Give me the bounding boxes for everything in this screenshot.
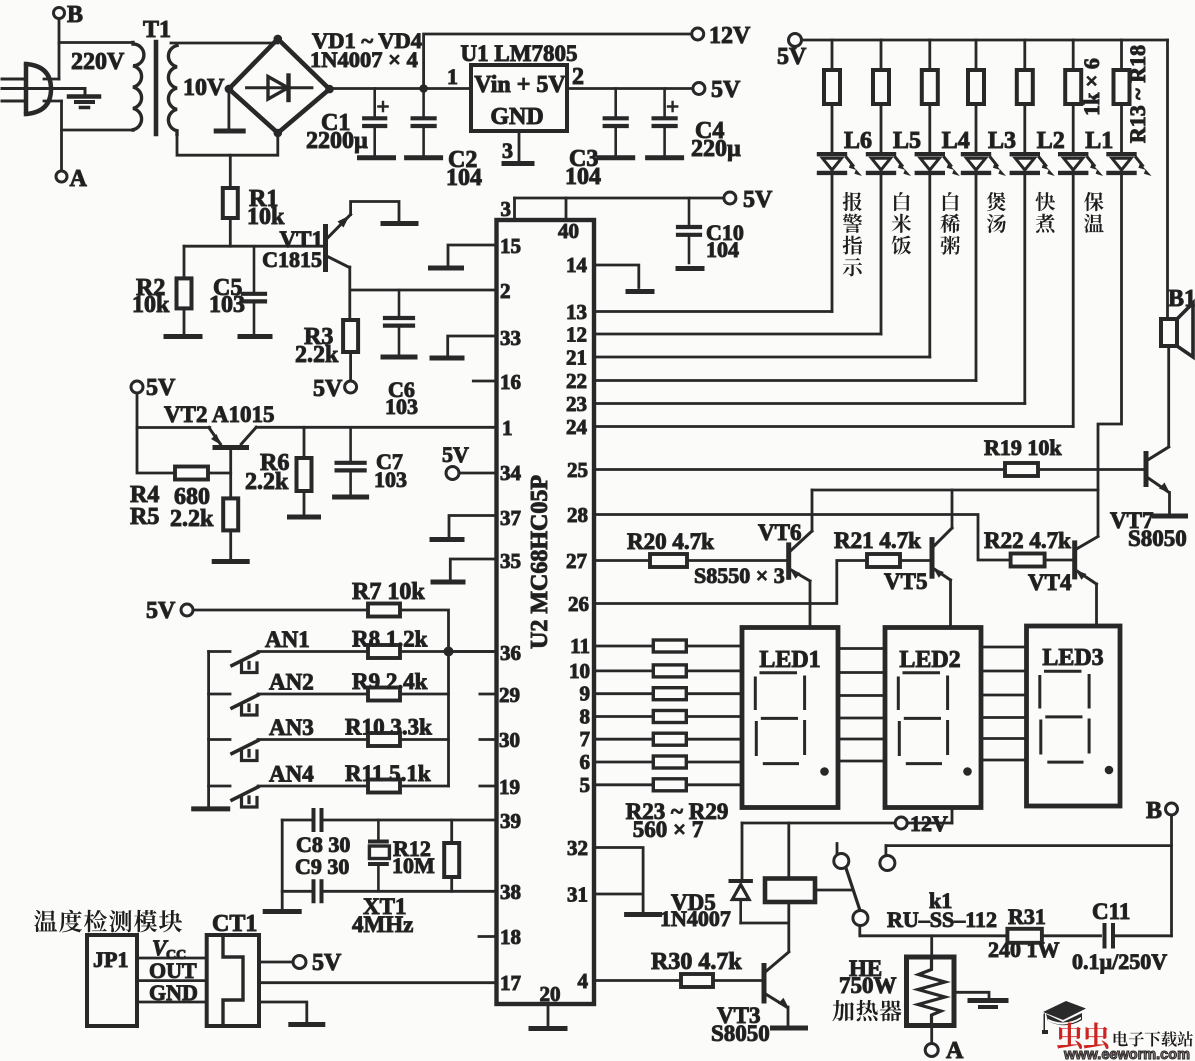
svg-text:40: 40 xyxy=(558,219,579,243)
wire LED1-LED2 link xyxy=(838,738,885,741)
wire crystal left rail xyxy=(281,820,284,909)
wire R31 to C11 xyxy=(1042,934,1101,937)
svg-text:750W: 750W xyxy=(839,973,897,998)
wire col R15 mid xyxy=(928,104,931,152)
svg-text:104: 104 xyxy=(565,164,601,190)
label pin4 xyxy=(578,969,589,993)
pin12 wire xyxy=(594,333,881,336)
wire LED2-LED3 link xyxy=(981,694,1027,697)
resistor R7 xyxy=(368,604,400,617)
svg-text:240 1W: 240 1W xyxy=(988,937,1060,962)
wire LED2-LED3 link xyxy=(981,670,1027,673)
ground heater xyxy=(970,1001,1006,1008)
ground R2 xyxy=(166,334,200,339)
label AN2 xyxy=(269,670,314,695)
pin36 wire xyxy=(449,650,497,653)
label C7 xyxy=(374,449,407,492)
svg-text:1N4007: 1N4007 xyxy=(660,906,731,931)
label VT6 xyxy=(758,520,801,545)
label led text 5 xyxy=(1084,192,1104,233)
svg-text:5V: 5V xyxy=(146,598,176,624)
heater HE box xyxy=(907,957,955,1026)
transistor VT6 xyxy=(789,531,812,581)
wire LED1-LED2 link xyxy=(838,694,885,697)
label Vin +5V xyxy=(474,72,566,98)
pin20 stub xyxy=(540,982,561,1025)
pin11 wire xyxy=(594,645,653,648)
switch AN4 xyxy=(209,786,258,807)
svg-text:L3: L3 xyxy=(988,128,1016,154)
capacitor C2 xyxy=(413,89,435,156)
wire col R15 bottom xyxy=(928,175,931,357)
label C6 xyxy=(385,377,418,419)
svg-text:3: 3 xyxy=(501,197,512,221)
resistor R5 xyxy=(223,498,238,530)
pin24 wire xyxy=(594,425,1073,428)
pin13 wire xyxy=(594,310,832,313)
pin35 wire xyxy=(450,559,496,580)
svg-text:5: 5 xyxy=(580,773,591,797)
svg-text:C9 30: C9 30 xyxy=(295,854,349,879)
svg-text:VT4: VT4 xyxy=(1028,570,1072,595)
svg-text:R20 4.7k: R20 4.7k xyxy=(627,529,714,554)
ground pin15 xyxy=(431,266,462,271)
pin10 wire xyxy=(594,670,653,673)
wire R29 to LED1 xyxy=(686,783,742,786)
wire bridge left to ground xyxy=(227,89,230,129)
resistor R11 xyxy=(368,780,400,793)
label C8 30 xyxy=(296,832,350,857)
svg-text:L1: L1 xyxy=(1085,128,1113,154)
svg-text:22: 22 xyxy=(566,369,587,393)
led L6 xyxy=(819,154,862,176)
svg-text:VT2 A1015: VT2 A1015 xyxy=(164,402,275,427)
wire col R16 bottom xyxy=(975,175,978,381)
resistor R4 xyxy=(175,467,208,480)
wire R27 to LED1 xyxy=(686,738,742,741)
resistor R28 xyxy=(653,756,686,768)
wire col R17 bottom xyxy=(1023,175,1026,404)
pin25 wire xyxy=(594,468,1005,471)
label R3 xyxy=(295,324,339,368)
wire R24 to LED1 xyxy=(686,670,742,673)
svg-text:15: 15 xyxy=(500,234,521,258)
svg-text:12: 12 xyxy=(566,323,587,347)
pin38 wire xyxy=(282,890,496,893)
svg-text:1k × 6: 1k × 6 xyxy=(1079,58,1104,116)
svg-text:AN3: AN3 xyxy=(269,715,314,740)
pin33 wire xyxy=(448,336,497,356)
ground C1 xyxy=(360,155,394,160)
pin15 wire xyxy=(448,245,497,266)
label 1k x 6 xyxy=(1079,58,1104,116)
svg-text:C1815: C1815 xyxy=(262,247,322,272)
ground VT7 xyxy=(1155,514,1186,519)
wire col R14 top xyxy=(880,40,883,70)
wire U1 out xyxy=(567,87,693,90)
terminal 5V CT1 xyxy=(293,950,342,976)
terminal 5V VT2 xyxy=(131,375,176,401)
label pin39 xyxy=(500,809,521,833)
wire col R17 mid xyxy=(1023,104,1026,152)
svg-text:4: 4 xyxy=(578,969,589,993)
wire LED2-LED3 link xyxy=(981,737,1027,740)
pin22 wire xyxy=(594,379,976,382)
resistor R6 drop xyxy=(303,427,306,458)
wire R19 to VT7 xyxy=(1038,468,1144,471)
label pin21 xyxy=(566,346,587,370)
svg-text:10V: 10V xyxy=(183,75,225,101)
wire secondary top to bridge xyxy=(171,39,278,43)
junction 12V tap xyxy=(419,84,428,93)
ground C6 xyxy=(383,355,415,360)
label led text 4 xyxy=(1036,192,1056,233)
ground R5 xyxy=(214,559,247,564)
label C1815 xyxy=(262,247,322,272)
resistor R13-R18 extra xyxy=(1114,70,1130,104)
capacitor C11 xyxy=(1105,925,1114,947)
svg-text:B1: B1 xyxy=(1168,286,1195,312)
wire R2 drop xyxy=(183,246,186,278)
svg-text:www.eeworm.com: www.eeworm.com xyxy=(1063,1047,1190,1061)
resistor R8 xyxy=(368,645,400,658)
label pin1 U1 xyxy=(447,64,458,89)
svg-text:29: 29 xyxy=(499,683,520,707)
svg-text:30: 30 xyxy=(499,728,520,752)
label VT4 xyxy=(1028,570,1072,595)
svg-text:GND: GND xyxy=(490,104,543,130)
label pin36 xyxy=(500,641,521,665)
wire col R13 top xyxy=(831,40,834,70)
svg-text:L5: L5 xyxy=(893,128,921,154)
svg-text:B: B xyxy=(67,2,83,28)
led L4 xyxy=(917,154,960,176)
svg-text:A: A xyxy=(946,1038,964,1061)
pin2 wire xyxy=(351,289,497,292)
svg-text:R11 5.1k: R11 5.1k xyxy=(345,761,431,786)
ic U2 MC68HC05P box xyxy=(497,220,595,1004)
label pin14 xyxy=(566,253,588,277)
pin14 wire xyxy=(594,265,639,288)
switch AN2 xyxy=(209,694,258,715)
label pin35 xyxy=(500,549,521,573)
svg-text:R5: R5 xyxy=(130,504,159,530)
pin6 wire xyxy=(594,761,653,764)
svg-text:10k: 10k xyxy=(132,292,170,318)
relay contact NO xyxy=(880,846,895,871)
svg-text:36: 36 xyxy=(500,641,521,665)
svg-text:R22 4.7k: R22 4.7k xyxy=(984,528,1071,553)
svg-text:14: 14 xyxy=(566,253,588,277)
capacitor C6 xyxy=(385,290,413,354)
label L4 xyxy=(942,128,970,154)
wire speaker feed xyxy=(1166,40,1169,319)
terminal 5V keys xyxy=(146,598,193,624)
wire R8 to pin36 xyxy=(400,650,497,653)
switch AN3 xyxy=(209,740,258,761)
label pin27 xyxy=(566,549,587,573)
wire R9 to bus xyxy=(400,693,449,696)
wire col R14 bottom xyxy=(880,175,883,334)
label C5 xyxy=(209,275,245,318)
ground VT1 collector xyxy=(383,221,416,226)
resistor R12 xyxy=(444,843,459,877)
resistor R26 xyxy=(653,711,686,723)
pin21 wire xyxy=(594,356,930,359)
label L2 xyxy=(1037,128,1065,154)
wire LED2-LED3 link xyxy=(981,759,1027,762)
label pin19 xyxy=(499,775,520,799)
label U1 LM7805 xyxy=(461,41,578,66)
svg-text:R8 1.2k: R8 1.2k xyxy=(352,627,428,652)
wire R7 to bus xyxy=(400,610,449,652)
svg-text:S8050: S8050 xyxy=(711,1021,770,1046)
svg-text:5V: 5V xyxy=(146,375,176,401)
wire contact line B xyxy=(886,844,1172,847)
terminal 5V main xyxy=(693,77,741,103)
wire AN4 to R11 xyxy=(258,785,368,788)
wire C11 to B xyxy=(1113,934,1172,937)
wire R26 to LED1 xyxy=(686,715,742,718)
wire 5V rail MCU xyxy=(515,197,724,200)
pin4 wire xyxy=(594,979,681,982)
switch AN1 xyxy=(209,652,258,673)
resistor R22 xyxy=(1011,554,1045,567)
wire B to plug xyxy=(58,19,61,80)
label CT1 xyxy=(212,911,257,937)
capacitor C8 plates xyxy=(314,810,322,830)
ground C2 xyxy=(407,155,441,160)
label R20 xyxy=(627,529,714,554)
wire VT5 emitter xyxy=(949,580,952,628)
resistor R3 xyxy=(343,320,358,352)
terminal 5V pin34 xyxy=(442,442,469,480)
pin5 wire xyxy=(594,783,653,786)
label R9 xyxy=(352,669,428,694)
ground pin31-32 xyxy=(627,912,660,917)
svg-text:R10 3.3k: R10 3.3k xyxy=(345,715,432,740)
ground crystal rail xyxy=(265,909,299,914)
label VD5 xyxy=(660,890,731,931)
wire 5V down xyxy=(137,393,175,473)
wire common to R31 xyxy=(861,934,1008,937)
label pin18 xyxy=(500,925,521,949)
svg-text:5V: 5V xyxy=(312,950,342,976)
pin27 wire xyxy=(594,559,650,562)
label pin28 xyxy=(567,503,588,527)
svg-text:R19 10k: R19 10k xyxy=(984,435,1062,460)
svg-text:32: 32 xyxy=(567,836,588,860)
wire col R16 top xyxy=(975,40,978,70)
label pin33 xyxy=(500,326,521,350)
label VT7 xyxy=(1110,508,1187,551)
svg-text:JP1: JP1 xyxy=(93,947,128,972)
wire B down xyxy=(1170,815,1173,936)
label pin2 xyxy=(500,279,511,303)
label pin24 xyxy=(566,415,588,439)
svg-text:5V: 5V xyxy=(442,442,469,467)
label L1 xyxy=(1085,128,1113,154)
terminal 5V LEDs xyxy=(777,34,807,71)
ground pin37 xyxy=(432,537,462,542)
wire VT2 base down xyxy=(229,448,232,499)
regulator U1 box xyxy=(471,65,567,131)
wire AN2 to R9 xyxy=(258,693,368,696)
label pin13 xyxy=(566,300,587,324)
wire VT6 emitter xyxy=(809,581,812,628)
wire CT1 5V xyxy=(259,961,293,964)
svg-text:AN1: AN1 xyxy=(265,627,310,652)
label pin9 xyxy=(580,682,591,706)
terminal B xyxy=(54,2,84,28)
svg-text:4MHz: 4MHz xyxy=(352,912,413,937)
resistor R2 xyxy=(177,278,192,308)
connector JP1 box xyxy=(87,935,137,1026)
resistor R30 xyxy=(681,974,713,987)
label R6 xyxy=(245,450,289,495)
label pin7 xyxy=(580,727,591,751)
resistor R25 xyxy=(653,688,686,700)
pin3 MCU stub xyxy=(501,197,515,221)
led L7 xyxy=(1109,154,1152,176)
wire R6 gnd xyxy=(303,491,306,515)
svg-text:6: 6 xyxy=(580,750,591,774)
wire LED1-LED2 link xyxy=(838,647,885,650)
svg-text:L4: L4 xyxy=(942,128,970,154)
wire col R14 mid xyxy=(880,104,883,152)
wire VT5 collector xyxy=(951,490,954,528)
label R7 10k xyxy=(352,579,425,605)
wire LED2-LED3 link xyxy=(981,646,1027,649)
svg-text:17: 17 xyxy=(500,971,521,995)
wire VT6 collector xyxy=(811,490,814,531)
label C9 30 xyxy=(295,854,349,879)
wire VT3 emitter gnd xyxy=(787,1007,790,1026)
wire coil bottom xyxy=(741,902,789,951)
svg-text:2.2k: 2.2k xyxy=(295,342,339,368)
label pin32 xyxy=(567,836,588,860)
display LED1 xyxy=(742,628,838,808)
svg-text:S8050: S8050 xyxy=(1128,526,1187,551)
capacitor C9 plates xyxy=(314,881,322,901)
wire secondary bottom xyxy=(177,133,278,155)
svg-text:25: 25 xyxy=(567,458,588,482)
ground earth near plug xyxy=(2,89,99,108)
label B1 xyxy=(1168,286,1195,312)
display LED2 xyxy=(885,628,981,808)
svg-text:0.1µ/250V: 0.1µ/250V xyxy=(1072,949,1167,974)
svg-text:12V: 12V xyxy=(910,811,948,836)
svg-text:560 × 7: 560 × 7 xyxy=(633,817,704,842)
wire VT1 base line xyxy=(184,245,326,248)
resistor R21 xyxy=(867,554,900,567)
wire R20 to VT6 xyxy=(687,559,789,562)
label pin16 xyxy=(500,370,521,394)
wire Vcc xyxy=(137,957,207,960)
resistor R27 xyxy=(653,733,686,745)
label VT2 A1015 xyxy=(164,402,275,427)
pin1 wire xyxy=(256,426,496,429)
wire col R13-R18 extra mid xyxy=(1120,104,1123,152)
pin26 wire xyxy=(594,561,867,604)
resistor R31 xyxy=(1007,929,1042,943)
pin31 wire xyxy=(594,894,643,912)
resistor R14 xyxy=(873,70,889,104)
transformer T1 secondary xyxy=(168,46,177,135)
bridge rectifier VD1-VD4 xyxy=(225,35,334,138)
svg-text:20: 20 xyxy=(540,982,561,1006)
label pin29 xyxy=(499,683,520,707)
label pin6 xyxy=(580,750,591,774)
logo url xyxy=(1063,1047,1190,1061)
svg-text:23: 23 xyxy=(566,392,587,416)
label VT5 xyxy=(884,569,927,594)
pin3 U1 stub xyxy=(502,131,532,164)
svg-text:16: 16 xyxy=(500,370,521,394)
wire heater to A xyxy=(930,1026,933,1044)
svg-text:37: 37 xyxy=(500,506,521,530)
label GND xyxy=(490,104,543,130)
svg-text:U2 MC68HC05P: U2 MC68HC05P xyxy=(527,475,553,649)
label AN1 xyxy=(265,627,310,652)
label U2 MC68HC05P xyxy=(527,475,553,649)
label R2 xyxy=(132,275,170,318)
svg-text:RU–SS–112: RU–SS–112 xyxy=(887,907,997,932)
capacitor C10 xyxy=(678,198,700,263)
ground pin35 xyxy=(433,580,463,585)
svg-text:5V: 5V xyxy=(313,376,343,402)
display LED3 xyxy=(1027,626,1121,806)
svg-text:104: 104 xyxy=(706,237,739,262)
terminal 5V R3 xyxy=(313,376,357,402)
label C4 xyxy=(691,118,741,162)
svg-text:33: 33 xyxy=(500,326,521,350)
wire 220V loop top xyxy=(59,41,133,44)
wire col R17 top xyxy=(1023,40,1026,70)
relay k1 coil xyxy=(765,879,815,903)
label R11 xyxy=(345,761,431,786)
wire R1 drop xyxy=(229,155,232,188)
wire col R18 mid xyxy=(1072,104,1075,152)
label k1 xyxy=(887,888,997,932)
label pin34 xyxy=(500,461,522,485)
label R31 xyxy=(988,904,1060,962)
svg-text:10M: 10M xyxy=(392,853,435,878)
label pin38 xyxy=(500,880,521,904)
label R13~R18 xyxy=(1125,45,1150,143)
resistor R15 xyxy=(922,70,938,104)
relay contact NC xyxy=(834,844,849,869)
wire AN1 to R8 xyxy=(258,650,368,653)
wire R2 gnd xyxy=(183,308,186,334)
label LED2 xyxy=(899,647,960,673)
svg-text:L2: L2 xyxy=(1037,128,1065,154)
svg-text:18: 18 xyxy=(500,925,521,949)
wire R10 to bus xyxy=(400,738,449,741)
svg-text:10: 10 xyxy=(569,659,590,683)
wire R25 to LED1 xyxy=(686,692,742,695)
wire LED2-LED3 link xyxy=(981,716,1027,719)
svg-text:13: 13 xyxy=(566,300,587,324)
ground bridge left xyxy=(216,129,243,134)
svg-text:2200µ: 2200µ xyxy=(306,128,368,154)
label S8550x3 xyxy=(694,563,785,588)
label pin17 xyxy=(500,971,521,995)
label R12 xyxy=(392,836,435,878)
terminal B right xyxy=(1146,798,1178,824)
relay contact common xyxy=(853,911,868,936)
label LED1 xyxy=(759,647,820,673)
